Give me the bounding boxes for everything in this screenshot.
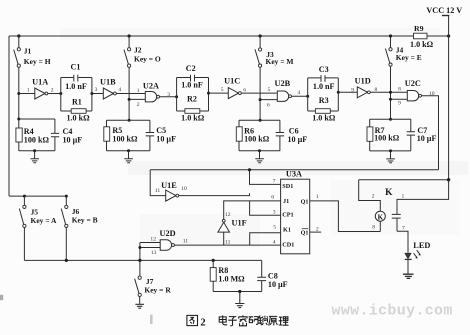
svg-text:10 µF: 10 µF bbox=[268, 280, 288, 289]
svg-text:2: 2 bbox=[137, 102, 140, 108]
svg-text:R3: R3 bbox=[319, 96, 329, 105]
node box C2R2 right bbox=[207, 92, 210, 95]
node R5C5 top bbox=[128, 119, 131, 122]
wire R7C7 bottom bbox=[370, 150, 411, 152]
switch J1 Key=H bbox=[18, 36, 20, 48]
switch J2 Key=O bbox=[128, 36, 130, 48]
svg-text:J2: J2 bbox=[134, 46, 142, 55]
svg-text:Q1: Q1 bbox=[301, 199, 309, 206]
capacitor C2 with resistor R2 feedback box bbox=[177, 78, 209, 112]
svg-text:10 µF: 10 µF bbox=[417, 134, 437, 143]
op-amp U1C inverter bbox=[228, 88, 238, 99]
ground R7C7 bbox=[386, 151, 395, 163]
wire U1F input bbox=[223, 232, 225, 245]
wire R8 C8 bottom bbox=[213, 291, 262, 293]
wire top rail left of R9 bbox=[9, 35, 414, 37]
svg-text:U1E: U1E bbox=[161, 181, 177, 190]
svg-text:1.0 nF: 1.0 nF bbox=[313, 82, 335, 91]
hanzi 码 bbox=[249, 317, 258, 325]
wire U2C lower input bbox=[391, 98, 408, 100]
resistor R5 bbox=[107, 120, 150, 127]
wire VCC vertical rail bbox=[448, 16, 450, 180]
svg-text:12: 12 bbox=[225, 212, 231, 218]
wire U1E output bbox=[179, 193, 250, 195]
wire U1A output bbox=[48, 93, 61, 95]
capacitor C1 with resistor R1 feedback box bbox=[61, 78, 92, 112]
svg-text:10 µF: 10 µF bbox=[63, 136, 83, 145]
nand U2A bbox=[145, 92, 156, 102]
wire J5 J6 feed bbox=[9, 195, 66, 197]
svg-text:U3A: U3A bbox=[286, 170, 302, 179]
svg-text:3: 3 bbox=[95, 87, 98, 93]
node top rail VCC bbox=[447, 34, 450, 37]
svg-text:1.0 nF: 1.0 nF bbox=[181, 81, 203, 90]
svg-text:U1C: U1C bbox=[224, 77, 240, 86]
ground R8C8 bbox=[235, 292, 244, 308]
node J5 top bbox=[23, 195, 26, 198]
svg-text:C1: C1 bbox=[71, 63, 81, 72]
relay contact bbox=[392, 214, 401, 218]
node box C1R1 left bbox=[59, 92, 62, 95]
wire U1A input bbox=[19, 93, 35, 95]
svg-text:LED: LED bbox=[413, 241, 430, 250]
svg-text:Key = B: Key = B bbox=[72, 216, 98, 225]
svg-text:4: 4 bbox=[297, 90, 300, 96]
node bottom J7 U2D bbox=[138, 259, 141, 262]
node box C2R2 left bbox=[175, 95, 178, 98]
wire U2A lower input bbox=[129, 98, 145, 100]
ground J7 bbox=[135, 304, 144, 308]
svg-text:1.0 MΩ: 1.0 MΩ bbox=[218, 275, 245, 284]
hanzi 理 bbox=[279, 317, 289, 325]
wire CP1 branch bbox=[250, 201, 281, 215]
wire contact to LED bbox=[397, 231, 408, 253]
node U1A input on J1 line bbox=[17, 92, 20, 95]
wire middle to U1E input bbox=[150, 170, 166, 196]
node box C3R3 left bbox=[306, 95, 309, 98]
node bottom R8 bbox=[212, 259, 215, 262]
svg-text:7: 7 bbox=[402, 225, 405, 231]
svg-text:C2: C2 bbox=[186, 64, 196, 73]
resistor R4 bbox=[19, 119, 55, 128]
wire U1C output to U2B bbox=[241, 92, 277, 94]
svg-text:Key = M: Key = M bbox=[266, 57, 294, 66]
node R6C6 top bbox=[259, 119, 262, 122]
wire relay coil branch bbox=[359, 180, 381, 211]
svg-text:100 kΩ: 100 kΩ bbox=[244, 135, 270, 144]
svg-text:8: 8 bbox=[372, 225, 375, 231]
relay coil K bbox=[375, 211, 385, 221]
transistor U1F inverter up bbox=[218, 222, 230, 232]
nand U2D bbox=[160, 240, 171, 250]
svg-text:100 kΩ: 100 kΩ bbox=[374, 133, 400, 142]
wire R6C6 bottom bbox=[239, 150, 280, 152]
wire U2D output to CD1 bbox=[174, 244, 280, 246]
svg-text:10 µF: 10 µF bbox=[156, 135, 176, 144]
svg-text:1: 1 bbox=[316, 194, 319, 200]
hanzi 子 bbox=[228, 317, 236, 326]
svg-text:6: 6 bbox=[271, 195, 274, 201]
svg-text:1.0 kΩ: 1.0 kΩ bbox=[181, 114, 205, 123]
op-amp U1A inverter bbox=[35, 88, 45, 99]
svg-text:5: 5 bbox=[273, 225, 276, 231]
svg-text:4: 4 bbox=[273, 240, 276, 246]
svg-text:R2: R2 bbox=[187, 95, 197, 104]
wire middle feedback bbox=[150, 169, 438, 171]
svg-text:9: 9 bbox=[351, 88, 354, 94]
svg-text:U2D: U2D bbox=[160, 229, 176, 238]
node J4 line U2C lower input bbox=[389, 98, 392, 101]
node box C1R1 right bbox=[90, 92, 93, 95]
wire relay contact branch bbox=[397, 180, 449, 212]
svg-text:Key = R: Key = R bbox=[144, 286, 171, 295]
node top rail J2 bbox=[128, 34, 131, 37]
svg-text:2: 2 bbox=[51, 87, 54, 93]
svg-text:1.0 nF: 1.0 nF bbox=[65, 82, 87, 91]
svg-text:5: 5 bbox=[221, 87, 224, 93]
svg-text:10: 10 bbox=[429, 91, 435, 97]
svg-text:13: 13 bbox=[151, 250, 157, 256]
node bottom J6 bbox=[65, 259, 68, 262]
wire U1F output to J1 pin bbox=[224, 201, 281, 220]
node R8C8 ground bbox=[238, 290, 241, 293]
wire U2B lower input bbox=[260, 99, 277, 101]
svg-text:Key = E: Key = E bbox=[396, 53, 422, 62]
svg-text:6: 6 bbox=[267, 103, 270, 109]
node middle wire SD1 branch bbox=[248, 168, 251, 171]
svg-text:CD1: CD1 bbox=[282, 241, 294, 248]
wire SD1 vertical and pin bbox=[250, 170, 281, 185]
svg-text:U1B: U1B bbox=[100, 78, 116, 87]
svg-text:10 µF: 10 µF bbox=[288, 135, 308, 144]
svg-text:U2C: U2C bbox=[405, 79, 421, 88]
svg-text:9: 9 bbox=[398, 101, 401, 107]
wire bottom common bbox=[24, 259, 261, 261]
wire U1D output to U2C bbox=[370, 91, 407, 93]
svg-text:U2A: U2A bbox=[143, 81, 159, 90]
svg-text:K1: K1 bbox=[283, 227, 291, 234]
ground R4C4 bbox=[30, 151, 39, 163]
svg-text:100 kΩ: 100 kΩ bbox=[112, 135, 138, 144]
capacitor C7 bbox=[407, 119, 415, 151]
svg-text:J1: J1 bbox=[283, 198, 289, 205]
wire top rail right of R9 bbox=[427, 35, 449, 37]
capacitor C8 bbox=[257, 260, 266, 291]
svg-text:1: 1 bbox=[402, 194, 405, 200]
svg-text:U1A: U1A bbox=[32, 78, 48, 87]
svg-text:1.0 kΩ: 1.0 kΩ bbox=[410, 40, 434, 49]
node J2 line U2A input bbox=[128, 98, 131, 101]
nand U2B bbox=[277, 91, 288, 101]
switch J7 Key=R bbox=[139, 260, 141, 276]
node box C3R3 right bbox=[337, 91, 340, 94]
svg-text:Q1: Q1 bbox=[301, 230, 309, 237]
node J3 line U2B input bbox=[259, 98, 262, 101]
caption figure title 图2 电子密码锁原理 bbox=[187, 315, 289, 326]
svg-text:R9: R9 bbox=[414, 24, 424, 33]
op-amp U1B inverter bbox=[103, 88, 113, 99]
svg-text:U1D: U1D bbox=[355, 76, 371, 85]
svg-text:U1F: U1F bbox=[232, 219, 247, 228]
node top rail J3 bbox=[259, 34, 262, 37]
svg-text:5: 5 bbox=[268, 87, 271, 93]
ground R5C5 bbox=[124, 151, 133, 163]
capacitor C5 bbox=[146, 120, 154, 151]
wire U2D inputs bbox=[140, 243, 160, 261]
svg-text:Key = O: Key = O bbox=[134, 54, 161, 63]
node top rail J1 bbox=[17, 34, 20, 37]
node R5C5 ground bbox=[127, 149, 130, 152]
wire LED to ground bbox=[407, 259, 409, 273]
capacitor C6 bbox=[276, 120, 284, 151]
switch J4 Key=E bbox=[390, 36, 392, 48]
node J6 top bbox=[65, 195, 68, 198]
resistor R8 bbox=[212, 260, 214, 267]
wire relay top rail bbox=[359, 179, 449, 181]
svg-text:11: 11 bbox=[225, 239, 231, 245]
switch J6 Key=B bbox=[65, 196, 67, 205]
svg-text:VCC 12 V: VCC 12 V bbox=[426, 6, 462, 15]
switch J5 Key=A bbox=[23, 196, 25, 205]
svg-text:CP1: CP1 bbox=[282, 212, 293, 219]
node R4C4 top bbox=[17, 118, 20, 121]
svg-text:8: 8 bbox=[398, 87, 401, 93]
svg-text:U2B: U2B bbox=[275, 79, 291, 88]
capacitor C4 bbox=[51, 119, 59, 151]
svg-text:1.0 kΩ: 1.0 kΩ bbox=[312, 114, 336, 123]
svg-text:1: 1 bbox=[27, 87, 30, 93]
node U2D input join bbox=[138, 246, 141, 249]
hanzi 密 bbox=[239, 315, 247, 326]
wire U1B output to U2A bbox=[116, 93, 145, 95]
resistor R9 bbox=[414, 33, 428, 39]
svg-text:2: 2 bbox=[372, 194, 375, 200]
svg-text:3: 3 bbox=[273, 209, 276, 215]
svg-text:J1: J1 bbox=[24, 47, 32, 56]
scan noise bands bbox=[128, 161, 468, 175]
wire R4C4 bottom bbox=[19, 150, 55, 152]
wire U2A output bbox=[160, 96, 177, 98]
wire Q1-bar stub bbox=[310, 231, 322, 233]
wire relay coil bottom bbox=[379, 221, 381, 231]
wire K1 branch bbox=[250, 233, 281, 245]
nand U2C bbox=[407, 91, 418, 101]
node R7C7 ground bbox=[389, 149, 392, 152]
node R4C4 ground bbox=[33, 149, 36, 152]
svg-text:K: K bbox=[385, 188, 393, 198]
ground R6C6 bbox=[255, 151, 264, 163]
svg-text:SD1: SD1 bbox=[282, 183, 293, 190]
svg-text:11: 11 bbox=[155, 188, 161, 194]
wire box C1R1 to U1B bbox=[92, 93, 103, 95]
scan smudge bottom-left corner bbox=[0, 295, 3, 300]
ground LED bbox=[403, 274, 414, 278]
svg-text:J7: J7 bbox=[146, 277, 154, 286]
node R6C6 ground bbox=[258, 149, 261, 152]
node R7C7 top bbox=[389, 118, 392, 121]
hanzi 原 bbox=[269, 316, 278, 325]
svg-text:K: K bbox=[378, 213, 384, 221]
svg-text:www.icbuy.com: www.icbuy.com bbox=[332, 302, 453, 319]
svg-text:7: 7 bbox=[273, 179, 276, 185]
svg-text:Key = A: Key = A bbox=[31, 216, 58, 225]
wire box C3R3 to U1D bbox=[338, 91, 357, 93]
resistor R7 bbox=[370, 119, 411, 127]
hanzi 图 bbox=[187, 315, 198, 325]
LED D1 bbox=[405, 253, 411, 258]
svg-text:11: 11 bbox=[183, 239, 189, 245]
op-amp U1D inverter bbox=[357, 87, 367, 98]
scan smudge left of caption bbox=[150, 315, 153, 325]
svg-text:2: 2 bbox=[200, 317, 205, 328]
hanzi 电 bbox=[219, 315, 227, 324]
svg-text:10: 10 bbox=[181, 186, 187, 192]
node relay rail VCC bbox=[447, 178, 450, 181]
node top rail J4 bbox=[389, 34, 392, 37]
svg-text:Key = H: Key = H bbox=[24, 57, 51, 66]
svg-text:R1: R1 bbox=[72, 97, 82, 106]
svg-text:1.0 kΩ: 1.0 kΩ bbox=[66, 114, 90, 123]
wire box C2R2 to U1C bbox=[209, 92, 229, 94]
resistor R6 bbox=[239, 120, 280, 127]
svg-text:12: 12 bbox=[150, 237, 156, 243]
switch J3 Key=M bbox=[259, 36, 261, 48]
wire U2C output down to middle wire bbox=[422, 96, 439, 170]
node J4 line U2C upper input bbox=[389, 91, 392, 94]
svg-text:1: 1 bbox=[137, 88, 140, 94]
hanzi 锁 bbox=[258, 315, 267, 325]
wire Q1 output bbox=[310, 201, 381, 232]
wire left rail bbox=[8, 36, 10, 196]
chip U3A bbox=[281, 179, 310, 254]
op-amp U1E inverter bbox=[166, 190, 176, 201]
svg-text:2: 2 bbox=[316, 226, 319, 232]
svg-text:100 kΩ: 100 kΩ bbox=[24, 136, 50, 145]
svg-text:4: 4 bbox=[118, 87, 121, 93]
capacitor C3 with resistor R3 feedback box bbox=[308, 78, 339, 111]
wire R5C5 bottom bbox=[107, 150, 150, 152]
svg-text:C3: C3 bbox=[319, 65, 329, 74]
wire U2B output bbox=[292, 95, 308, 97]
